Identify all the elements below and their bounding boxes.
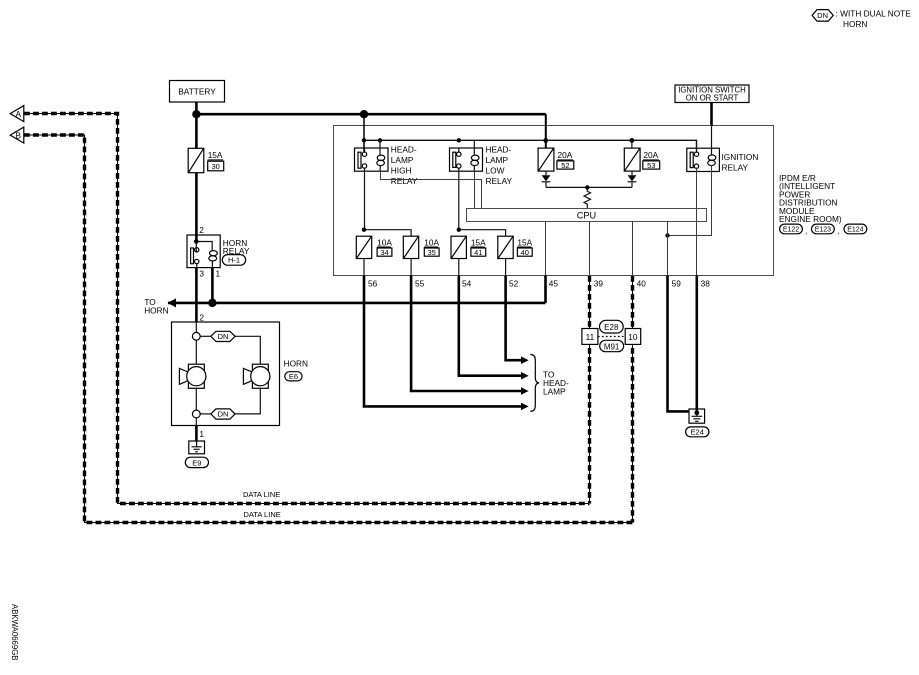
- svg-text:40: 40: [637, 278, 647, 288]
- svg-text:10A: 10A: [424, 238, 439, 248]
- svg-text:ABKWA0669GB: ABKWA0669GB: [10, 604, 19, 660]
- svg-text:E24: E24: [691, 428, 704, 437]
- svg-text:DN: DN: [218, 410, 229, 419]
- wire low relay contact to fuses 41/40: [459, 171, 506, 236]
- dotted link 11-10: [598, 336, 625, 338]
- svg-text:54: 54: [462, 278, 472, 288]
- horn (right) sounder: [243, 364, 270, 388]
- wire data line A (dashed): [24, 114, 590, 504]
- relay H-1 horn relay: [187, 235, 250, 268]
- wire horn relay pin 1 to horn feed line: [211, 268, 214, 303]
- wire terminal to left horn: [195, 340, 197, 364]
- node horn relay pin 2 junction: [194, 239, 199, 244]
- svg-text:HORN: HORN: [843, 19, 867, 29]
- fuse 20A 53: [624, 148, 659, 171]
- svg-text:IGNITION: IGNITION: [722, 152, 759, 162]
- wire CPU to pin 45: [545, 222, 547, 276]
- svg-text:E124: E124: [847, 227, 863, 234]
- wire horn pin 1 to ground: [195, 426, 198, 442]
- battery B1: [170, 81, 225, 103]
- node diode rail center: [585, 185, 589, 189]
- svg-text:3: 3: [199, 269, 204, 279]
- svg-text:52: 52: [509, 278, 519, 288]
- svg-text:LAMP: LAMP: [391, 155, 414, 165]
- svg-text:DATA LINE: DATA LINE: [243, 490, 280, 499]
- svg-text:HEAD-: HEAD-: [391, 144, 417, 154]
- wire rail stub to fuse 53: [631, 140, 633, 148]
- wire data line B (dashed): [24, 135, 633, 523]
- svg-text:52: 52: [561, 161, 569, 170]
- svg-text:E28: E28: [604, 323, 619, 332]
- svg-text:15A: 15A: [517, 238, 532, 248]
- wire fuse 35 to pin 55: [410, 259, 412, 276]
- svg-text:A: A: [15, 110, 21, 119]
- svg-text:DATA LINE: DATA LINE: [244, 510, 281, 519]
- connector arrow B: [10, 127, 24, 143]
- svg-text:: WITH DUAL NOTE: : WITH DUAL NOTE: [836, 9, 912, 19]
- fuse 10A 35: [403, 236, 439, 258]
- svg-text:,: ,: [805, 226, 807, 236]
- fuse 15A 40: [498, 236, 533, 258]
- svg-text:ON OR START: ON OR START: [686, 94, 739, 103]
- svg-text:2: 2: [199, 312, 204, 322]
- svg-text:RELAY: RELAY: [722, 162, 749, 172]
- ground E24: [686, 409, 709, 437]
- wire horn internal top: [195, 322, 197, 332]
- wire bottom hexagon to right horn: [235, 388, 260, 414]
- wire ignition switch feed: [710, 103, 713, 127]
- wire horn relay pin 3 to horn: [195, 268, 198, 322]
- wire fuse 40 to pin 52: [505, 259, 507, 276]
- resistor R1 to CPU: [584, 187, 590, 208]
- wire 40 data line (dashed): [632, 276, 634, 523]
- connector box 11 (E28): [582, 329, 598, 345]
- connector E123: [812, 224, 840, 235]
- svg-text:HIGH: HIGH: [391, 165, 412, 175]
- connector E124: [844, 224, 867, 234]
- node rail-high relay coil: [378, 138, 382, 142]
- connector arrow A: [10, 106, 24, 122]
- svg-text:M91: M91: [604, 342, 620, 351]
- fuse 15A 41: [451, 236, 486, 258]
- node rail-high relay contact: [362, 138, 366, 142]
- fuse 20A 52: [538, 148, 574, 171]
- wire ignition relay coil return to node 59: [668, 165, 712, 235]
- svg-text:HORN: HORN: [284, 359, 308, 369]
- brace to head-lamp: [530, 354, 539, 411]
- svg-text:HORN: HORN: [144, 305, 168, 315]
- wire battery feed vertical: [195, 102, 198, 148]
- wire diode output rail: [546, 186, 632, 188]
- wire ignition relay contact to pin 38: [696, 168, 698, 275]
- svg-text:H-1: H-1: [228, 256, 240, 265]
- svg-text:56: 56: [368, 278, 378, 288]
- relay U2 headlamp low: [450, 140, 513, 186]
- CPU U4: [467, 209, 707, 222]
- svg-text:38: 38: [701, 278, 711, 288]
- node fuse 34/35 branch: [362, 228, 366, 232]
- svg-text:1: 1: [216, 269, 221, 279]
- node horn feed junction: [208, 299, 216, 307]
- wire fuse 30 to horn relay: [195, 173, 198, 242]
- wire low relay coil to CPU: [474, 171, 476, 208]
- wire pin 56 to headlamp arrow 4: [364, 276, 522, 407]
- to horn arrowhead: [167, 298, 176, 307]
- wire 39 data line (dashed): [589, 276, 591, 504]
- svg-text:LOW: LOW: [486, 165, 505, 175]
- svg-text:ENGINE ROOM): ENGINE ROOM): [779, 214, 842, 224]
- connector box 10 (M91): [625, 329, 641, 345]
- svg-text:53: 53: [647, 161, 655, 170]
- wire branch battery to high relay contact: [363, 114, 365, 152]
- wire battery rail to fuse 52: [545, 114, 547, 148]
- svg-text:LAMP: LAMP: [486, 155, 509, 165]
- horn assembly box E6: [172, 322, 280, 426]
- svg-text:DN: DN: [218, 332, 229, 341]
- node rail-low relay contact: [457, 138, 461, 142]
- DN hexagon bottom: [200, 409, 235, 419]
- svg-text:39: 39: [594, 278, 604, 288]
- svg-text:41: 41: [474, 248, 482, 257]
- horn (left) sounder: [179, 364, 206, 388]
- wire pin 59 to ground E24: [668, 276, 690, 412]
- svg-text:30: 30: [212, 162, 220, 171]
- relay U1 headlamp high: [355, 140, 418, 186]
- svg-text:DN: DN: [817, 11, 828, 20]
- arrowhead 3: [521, 387, 529, 395]
- svg-text:E9: E9: [192, 458, 201, 467]
- svg-text:E123: E123: [815, 227, 831, 234]
- svg-text:,: ,: [838, 226, 840, 236]
- svg-text:15A: 15A: [208, 150, 223, 160]
- svg-text:34: 34: [380, 248, 388, 257]
- node rail-fuse 52 feed: [543, 138, 548, 143]
- svg-text:LAMP: LAMP: [543, 387, 566, 397]
- svg-text:35: 35: [428, 248, 436, 257]
- label HORN E6: [284, 359, 308, 381]
- svg-text:BATTERY: BATTERY: [178, 87, 216, 97]
- wire pin 52 to headlamp arrow 1: [506, 276, 522, 361]
- connector E28: [600, 320, 624, 333]
- wire fuse 34 to pin 56: [363, 259, 365, 276]
- wire internal supply rail: [364, 140, 697, 152]
- svg-text:E6: E6: [289, 372, 298, 381]
- node rail-fuse 53 feed: [630, 138, 635, 143]
- wire pin 38 to ground E24: [695, 276, 698, 413]
- svg-text:E122: E122: [783, 227, 799, 234]
- ignition switch source box: [675, 85, 749, 103]
- node horn terminal top: [192, 332, 200, 340]
- svg-text:RELAY: RELAY: [391, 176, 418, 186]
- diode D1 under fuse 52: [542, 171, 551, 187]
- svg-text:10: 10: [628, 332, 638, 342]
- arrowhead 4: [521, 403, 529, 411]
- DN hexagon top: [200, 331, 235, 341]
- wire to horn / pin 45 line: [168, 276, 546, 303]
- fuse 15A 30: [188, 148, 224, 172]
- wire CPU to pin 39: [589, 222, 591, 276]
- node battery rail junction: [192, 110, 200, 118]
- svg-text:15A: 15A: [471, 238, 486, 248]
- svg-text:HEAD-: HEAD-: [486, 144, 512, 154]
- arrowhead 1: [521, 356, 529, 364]
- svg-text:11: 11: [586, 332, 595, 342]
- svg-text:10A: 10A: [377, 238, 392, 248]
- fuse 10A 34: [356, 236, 392, 258]
- ground E9: [185, 441, 208, 468]
- arrowhead 2: [521, 372, 529, 380]
- svg-text:B: B: [15, 131, 21, 140]
- label IPDM E/R block: [779, 173, 842, 224]
- wire left horn to bottom terminal: [195, 388, 197, 410]
- wire pin 54 to headlamp arrow 2: [459, 276, 522, 376]
- wire top hexagon to right horn: [235, 336, 260, 364]
- node fuse 41/40 branch: [457, 228, 461, 232]
- relay U3 ignition: [687, 126, 759, 172]
- svg-text:1: 1: [199, 429, 204, 439]
- connector M91: [600, 340, 624, 351]
- svg-text:CPU: CPU: [577, 210, 596, 220]
- node rail branch to headlamp high relay: [360, 110, 368, 118]
- svg-text:45: 45: [549, 278, 559, 288]
- svg-text:40: 40: [521, 248, 529, 257]
- node horn terminal bottom: [192, 410, 200, 418]
- svg-text:59: 59: [672, 278, 682, 288]
- wire fuse 41 to pin 54: [458, 259, 460, 276]
- wire CPU to pin 40: [632, 222, 634, 276]
- svg-text:RELAY: RELAY: [486, 176, 513, 186]
- wire pin 55 to headlamp arrow 3: [411, 276, 521, 392]
- wire CPU to pin 59: [667, 222, 669, 276]
- svg-text:55: 55: [415, 278, 425, 288]
- node coil return / line 59: [665, 233, 669, 237]
- IPDM E/R module box: [334, 126, 774, 276]
- svg-text:2: 2: [199, 225, 204, 235]
- wire high relay contact to fuses 34/35: [364, 171, 411, 236]
- wire battery rail horizontal: [196, 113, 545, 116]
- wire bottom terminal to pin 1: [195, 418, 197, 426]
- svg-text:20A: 20A: [643, 150, 658, 160]
- svg-text:20A: 20A: [558, 150, 573, 160]
- diode D2 under fuse 53: [628, 171, 637, 187]
- connector E122: [780, 224, 808, 235]
- legend symbol DN (with dual note horn): [812, 9, 911, 29]
- wire high relay coil to CPU: [381, 171, 482, 208]
